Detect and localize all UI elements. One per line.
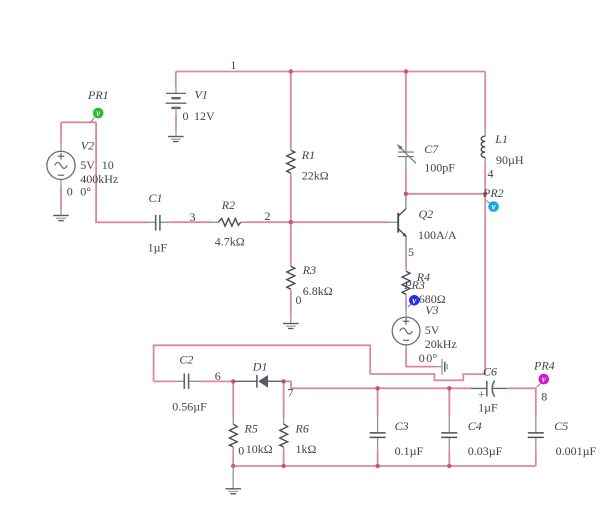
svg-text:C7: C7 <box>424 142 439 156</box>
node junction dot rail/R1 <box>289 69 293 73</box>
svg-text:100pF: 100pF <box>424 160 455 174</box>
node junction dot bottom/R6 <box>281 464 285 468</box>
resistor R6 <box>280 417 288 450</box>
svg-text:0.001µF: 0.001µF <box>556 444 597 458</box>
svg-text:Q2: Q2 <box>419 207 434 221</box>
wire feedback stepped run <box>154 345 486 381</box>
capacitor C1 <box>148 215 169 231</box>
diode D1 <box>233 375 283 388</box>
svg-text:1µF: 1µF <box>148 241 168 255</box>
capacitor C3 <box>370 417 386 451</box>
wire R1 to node 2 <box>290 176 292 222</box>
wire C2 left lead run <box>154 380 177 382</box>
ground (R3) <box>283 317 299 329</box>
svg-text:R3: R3 <box>302 263 316 277</box>
probe PR2 <box>487 201 490 204</box>
svg-text:3: 3 <box>190 210 196 224</box>
svg-text:C2: C2 <box>179 353 193 367</box>
svg-text:5: 5 <box>408 245 414 259</box>
svg-text:C3: C3 <box>395 419 409 433</box>
svg-text:4.7kΩ: 4.7kΩ <box>215 234 245 248</box>
resistor R1 <box>287 148 295 176</box>
svg-text:0.56µF: 0.56µF <box>172 399 207 413</box>
svg-text:22kΩ: 22kΩ <box>302 169 329 183</box>
wire L1 bottom long drop <box>484 164 486 374</box>
wire R5 bottom <box>232 451 234 467</box>
resistor R4 <box>402 268 410 298</box>
wire L1 top feed <box>484 72 486 131</box>
svg-text:90µH: 90µH <box>496 153 524 167</box>
wire node 7 step to rail <box>284 381 472 388</box>
capacitor C4 <box>441 417 457 451</box>
node 6 junction dot <box>231 379 235 383</box>
wire C3 top <box>377 388 379 416</box>
wire collector node to L1 column <box>406 193 485 195</box>
node junction dot rail/C4 <box>447 386 451 390</box>
AC source V3 <box>392 310 420 349</box>
svg-text:R6: R6 <box>295 421 309 435</box>
wire R3 to ground <box>290 292 292 317</box>
wire V2 bottom to ground <box>60 187 62 209</box>
ground (V3, sideways) <box>435 359 448 375</box>
svg-text:PR2: PR2 <box>482 186 504 200</box>
node 7 junction dot <box>281 379 285 383</box>
wire C2 to node 6 <box>200 380 233 382</box>
svg-text:0.1µF: 0.1µF <box>395 444 424 458</box>
wire V1 top lead <box>175 72 177 88</box>
svg-text:6.8kΩ: 6.8kΩ <box>303 284 333 298</box>
probe PR4 <box>537 383 541 387</box>
svg-text:0: 0 <box>296 293 302 307</box>
battery V1 <box>166 87 187 136</box>
svg-text:L1: L1 <box>494 132 508 146</box>
wire node 2 to R3 <box>290 222 292 263</box>
svg-text:20kHz: 20kHz <box>425 337 457 351</box>
ground (V2) <box>53 209 69 221</box>
node junction dot bottom/R5 <box>231 464 235 468</box>
svg-text:PR3: PR3 <box>403 278 425 292</box>
node junction dot collector/C7 <box>404 192 408 196</box>
polarized capacitor C6 <box>471 381 507 397</box>
svg-text:C5: C5 <box>554 419 568 433</box>
svg-text:0: 0 <box>419 351 425 365</box>
probe PR1 <box>90 117 94 123</box>
wire R1 top feed <box>290 72 292 148</box>
capacitor C2 <box>176 374 200 389</box>
wire R6 bottom <box>283 451 285 467</box>
wire V2 top link <box>61 121 96 123</box>
node junction dot rail/C3 <box>375 386 379 390</box>
wire top rail node 1 <box>176 71 485 73</box>
wire R5 top <box>232 381 234 417</box>
svg-text:V2: V2 <box>81 139 94 153</box>
svg-text:1: 1 <box>230 58 236 72</box>
wire R4 to V3 <box>405 298 407 310</box>
svg-text:PR1: PR1 <box>87 88 109 102</box>
svg-text:7: 7 <box>288 385 294 399</box>
wire C5 bottom <box>535 450 537 466</box>
wire C4 bottom <box>448 450 450 466</box>
svg-text:0: 0 <box>183 109 189 123</box>
node junction dot bottom/C3 <box>375 464 379 468</box>
svg-text:2: 2 <box>265 209 271 223</box>
node junction dot rail/C7 <box>404 69 408 73</box>
svg-text:0.03µF: 0.03µF <box>468 444 503 458</box>
inductor L1 <box>481 131 485 165</box>
svg-text:R1: R1 <box>301 148 315 162</box>
wire C4 top <box>448 388 450 416</box>
resistor R3 <box>287 264 295 293</box>
svg-text:PR4: PR4 <box>533 358 555 372</box>
svg-text:0: 0 <box>238 444 244 458</box>
wire Q2 emitter to R4 <box>405 250 407 268</box>
svg-text:0°: 0° <box>80 185 91 199</box>
svg-text:D1: D1 <box>252 360 268 374</box>
svg-text:C6: C6 <box>483 364 497 378</box>
wire V3 bottom to ground <box>406 349 435 367</box>
wire input drop node 10 <box>96 122 147 222</box>
wire V1 ground red stub <box>175 115 177 130</box>
wire R6 top <box>283 381 285 417</box>
svg-text:10kΩ: 10kΩ <box>246 442 273 456</box>
node 2 junction dot <box>289 220 293 224</box>
svg-text:6: 6 <box>215 369 221 383</box>
capacitor C5 <box>528 417 544 450</box>
svg-text:C1: C1 <box>149 191 163 205</box>
node junction dot collector/L1 <box>483 192 487 196</box>
svg-text:4: 4 <box>488 166 494 180</box>
wire bottom rail <box>233 465 536 467</box>
svg-text:5V: 5V <box>80 158 95 172</box>
svg-text:100A/A: 100A/A <box>418 228 457 242</box>
svg-text:0°: 0° <box>426 351 437 365</box>
transistor Q2 <box>389 195 406 251</box>
wire R2 to node 2 <box>245 221 291 223</box>
ground (R5) <box>225 466 241 494</box>
svg-text:12V: 12V <box>194 109 215 123</box>
wire C7 top feed <box>405 72 407 142</box>
variable capacitor C7 <box>397 142 416 169</box>
wire node 2 to Q2 base <box>291 221 390 223</box>
wire V2 top lead <box>60 122 62 143</box>
svg-text:+: + <box>478 387 485 401</box>
svg-text:R5: R5 <box>244 421 258 435</box>
wire C6 right to corner node 8 <box>507 388 536 417</box>
ground (V1) <box>168 137 184 142</box>
svg-text:8: 8 <box>541 389 547 403</box>
svg-text:1kΩ: 1kΩ <box>296 442 317 456</box>
svg-text:V3: V3 <box>425 303 438 317</box>
node junction dot bottom/C4 <box>447 464 451 468</box>
svg-text:C4: C4 <box>468 419 482 433</box>
svg-text:0: 0 <box>67 185 73 199</box>
svg-text:10: 10 <box>102 158 114 172</box>
resistor R2 <box>212 218 244 226</box>
resistor R5 <box>229 417 237 450</box>
probe PR3 <box>408 304 411 307</box>
svg-text:5V: 5V <box>425 323 440 337</box>
svg-text:1µF: 1µF <box>478 401 498 415</box>
svg-text:V1: V1 <box>195 88 208 102</box>
svg-text:R2: R2 <box>221 198 235 212</box>
wire C1 to R2 node 3 <box>169 221 213 223</box>
wire C7 bottom to collector node <box>405 168 407 194</box>
AC source V2 <box>47 143 75 187</box>
wire C3 bottom <box>377 450 379 466</box>
